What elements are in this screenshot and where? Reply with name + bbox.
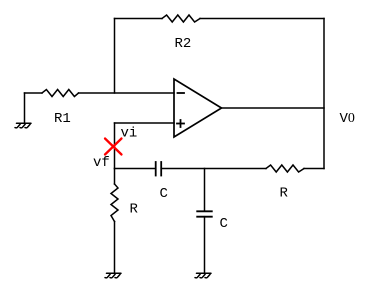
capacitor C1 (horizontal) bbox=[156, 162, 162, 176]
ground G1 (left) bbox=[15, 123, 31, 128]
svg-text:R: R bbox=[130, 202, 139, 218]
resistor R2 bbox=[162, 15, 200, 22]
wire W15: R4 to right vertical bbox=[304, 168, 324, 170]
svg-text:V0: V0 bbox=[340, 111, 355, 127]
svg-text:C: C bbox=[160, 186, 168, 202]
wire W17: C2 to ground bbox=[204, 217, 206, 273]
probe mark X at node vi (red) bbox=[105, 139, 122, 155]
wire W8: op-amp output to right vertical bbox=[222, 107, 325, 109]
wire W9: non-inverting input horizontal bbox=[115, 122, 175, 124]
ground G3 (below C2) bbox=[195, 273, 211, 278]
wire W11: vf junction to resistor R3 top bbox=[114, 169, 116, 185]
resistor R4 (horizontal) bbox=[266, 165, 304, 172]
wire W12: R3 bottom to ground bbox=[114, 222, 116, 273]
op-amp U1 non-inverting pin mark bbox=[177, 120, 184, 127]
svg-text:R2: R2 bbox=[175, 36, 192, 52]
capacitor C2 (vertical) bbox=[197, 211, 212, 216]
ground G2 (below R3) bbox=[105, 273, 121, 278]
svg-text:R1: R1 bbox=[54, 111, 71, 127]
wire W7: right vertical (output net) bbox=[323, 19, 325, 169]
svg-text:C: C bbox=[220, 216, 228, 232]
wire W2: R1 left lead bbox=[25, 92, 43, 94]
svg-text:vf: vf bbox=[93, 155, 110, 171]
wire W6: top right segment bbox=[200, 18, 324, 20]
wire W13: vf to capacitor C1 bbox=[115, 168, 156, 170]
wire W16: C2 riser bbox=[204, 169, 206, 212]
resistor R3 (vertical) bbox=[111, 184, 118, 222]
wire W5: top left segment bbox=[115, 18, 163, 20]
op-amp U1 triangle bbox=[174, 79, 222, 137]
wire W1: left ground riser bbox=[24, 93, 26, 123]
wire W14: C1 to R4 lead (through C2 junction) bbox=[161, 168, 266, 170]
svg-text:R: R bbox=[280, 186, 289, 202]
wire W3: R1 to op-amp inverting input bbox=[79, 92, 175, 94]
wire W10: node vi vertical drop to vf bbox=[114, 123, 116, 169]
resistor R1 bbox=[42, 90, 79, 97]
svg-text:vi: vi bbox=[121, 126, 138, 142]
op-amp U1 inverting pin mark bbox=[178, 92, 185, 94]
wire W4: feedback riser at junction bbox=[114, 19, 116, 94]
